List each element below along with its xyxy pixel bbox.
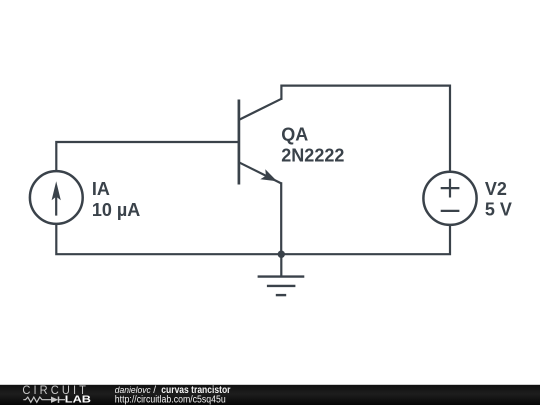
ground: [258, 254, 305, 295]
svg-text:2N2222: 2N2222: [281, 145, 344, 165]
node junction dot: [278, 251, 285, 258]
voltage source V2: [423, 172, 476, 225]
logo resistor-diode squiggle: [23, 397, 65, 403]
wire base: IA top to QA base: [56, 142, 239, 171]
transistor QA: [239, 99, 282, 185]
svg-text:V2: V2: [485, 179, 507, 199]
svg-text:5 V: 5 V: [485, 200, 512, 220]
svg-text:LAB: LAB: [65, 394, 92, 405]
svg-text:QA: QA: [281, 124, 308, 144]
svg-text:IA: IA: [92, 179, 110, 199]
label V2 value: [485, 179, 512, 220]
wire emitter: QA emitter to ground node: [280, 183, 282, 254]
label IA value: [92, 179, 140, 220]
label QA value: [281, 124, 344, 165]
wire collector: QA collector to V2 top: [281, 86, 450, 172]
svg-text:http://circuitlab.com/c5sq45u: http://circuitlab.com/c5sq45u: [115, 394, 226, 405]
current source IA: [30, 171, 83, 224]
footer bar: [0, 385, 540, 405]
wire bottom: IA bottom to ground node to V2 bottom: [56, 225, 450, 255]
svg-text:10 µA: 10 µA: [92, 200, 140, 220]
